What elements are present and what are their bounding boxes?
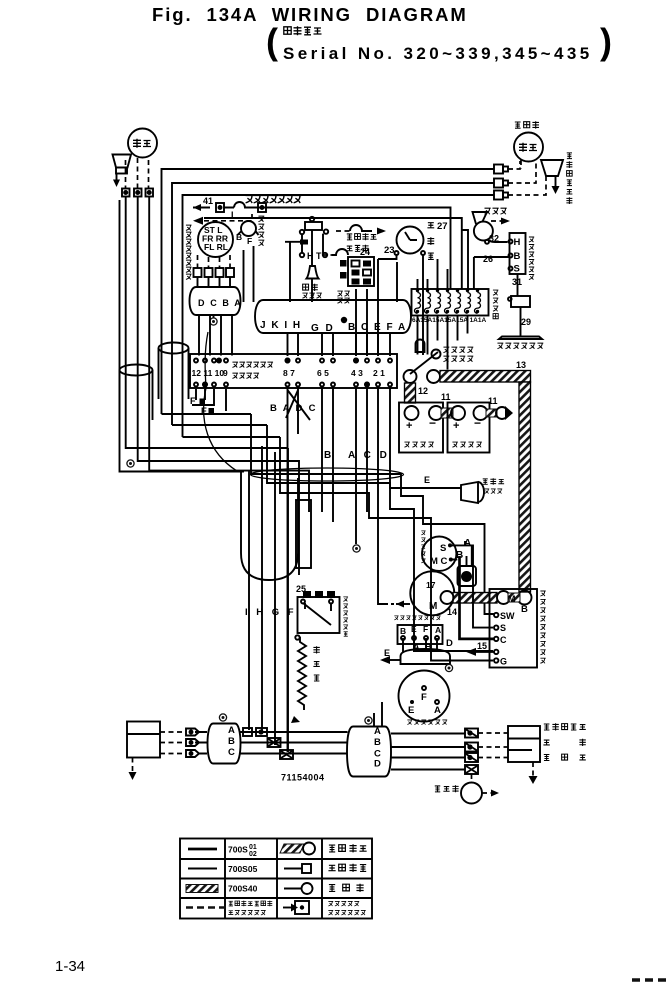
wires ellipse to junction block — [192, 334, 367, 544]
head lamp L1 (front left) — [128, 129, 157, 158]
panel lamp bulb on dashed line — [336, 230, 350, 232]
svg-text:31: 31 — [512, 277, 522, 287]
svg-text:4 3: 4 3 — [351, 368, 363, 378]
svg-text:2 1: 2 1 — [373, 368, 385, 378]
leads into connector DCBA — [198, 277, 231, 287]
label バッテリスイッチ — [443, 347, 473, 353]
svg-text:M C: M C — [430, 556, 448, 567]
svg-text:12 11 10: 12 11 10 — [192, 368, 225, 378]
battery switch terminals — [404, 370, 417, 383]
wires between ABC and ABCD blocks — [241, 732, 348, 754]
svg-text:B: B — [514, 251, 521, 262]
inline connectors on bottom bus — [243, 728, 267, 736]
svg-text:14: 14 — [447, 607, 457, 617]
svg-text:13: 13 — [516, 360, 526, 370]
svg-text:B: B — [400, 626, 406, 636]
ground at left harness — [127, 460, 134, 467]
switch dashed leads to connectors — [198, 255, 231, 269]
wire: loop3 lower bend — [183, 436, 281, 438]
labels 方向指示灯 / 電灯 / 制動灯 — [544, 723, 586, 730]
dashed return with left arrow — [204, 214, 252, 221]
svg-text:G: G — [500, 657, 507, 667]
cylinder sheath 1 (left cable) — [120, 365, 153, 421]
row4 — [186, 906, 226, 909]
flasher pilot lamp circle — [236, 221, 259, 246]
title serial-number line with big parentheses — [266, 21, 612, 63]
row1: plain wire sample — [188, 848, 217, 851]
battery link 11 — [441, 408, 453, 418]
wire: horn lead down long left — [120, 200, 245, 472]
svg-text:F: F — [423, 624, 428, 634]
wire: loop3 — [183, 195, 495, 437]
dashed leads from lamp L1 to connectors — [126, 158, 149, 188]
svg-text:D: D — [446, 638, 453, 649]
svg-text:E: E — [201, 406, 207, 416]
horn button — [497, 337, 543, 349]
svg-text:700S05: 700S05 — [228, 864, 258, 874]
horn relay (H B S) — [509, 233, 526, 275]
starter solenoid circle S M C — [422, 537, 456, 571]
wire: chain to magnet switch S terminal — [267, 425, 493, 651]
svg-text:25: 25 — [296, 584, 306, 594]
svg-text:+: + — [453, 420, 459, 432]
svg-text:J K I H: J K I H — [260, 320, 302, 331]
big harness ellipse connector J K I H G D B C E F A — [255, 300, 411, 334]
label 前照灯 above lamp L2 — [515, 121, 539, 128]
ground mid — [353, 545, 360, 552]
wire 23 from gauge left terminal — [378, 255, 423, 355]
svg-text:A: A — [435, 625, 441, 635]
svg-text:02: 02 — [249, 851, 257, 858]
connector block ABC (bottom left) — [195, 714, 241, 764]
svg-text:11: 11 — [488, 396, 498, 406]
label 尾柴灯 — [346, 245, 368, 252]
E arrow to dynamo — [390, 659, 401, 661]
crossing swoop cable — [204, 332, 237, 471]
bottom right stray marks — [632, 978, 666, 982]
dashed leads lamp L2 / rear signal to connectors — [508, 160, 546, 195]
wires ABCD to right connectors — [391, 734, 465, 770]
head lamp L2 (front right) — [514, 133, 543, 162]
svg-text:H T: H T — [307, 251, 322, 261]
svg-text:S: S — [514, 264, 520, 275]
wire: lamp lead 3 — [149, 197, 309, 513]
row2 — [188, 868, 217, 870]
svg-text:71154004: 71154004 — [281, 773, 325, 783]
labels around ammeter: 電 27 / 尾 / 計 — [427, 221, 447, 259]
vertical cable bundle sheath (U loop) — [241, 470, 298, 580]
svg-text:1-34: 1-34 — [55, 958, 85, 975]
heavy cable 13 horizontal — [440, 371, 531, 383]
signal lamp — [435, 774, 499, 804]
connector plugs below lamp L1 — [122, 189, 153, 197]
svg-text:A: A — [374, 726, 381, 737]
flasher wires down to harness ellipse — [244, 246, 254, 302]
svg-text:B: B — [374, 737, 381, 748]
svg-text:+: + — [406, 420, 412, 432]
svg-text:29: 29 — [521, 317, 531, 327]
svg-text:23: 23 — [384, 245, 395, 256]
staircase bend wires crossing to right side — [251, 414, 494, 614]
svg-text:SW: SW — [500, 611, 515, 621]
svg-text:G D: G D — [311, 323, 335, 334]
light switch SW1 (ST L / FR RR / FL RL) — [198, 222, 233, 257]
svg-text:H: H — [514, 237, 521, 248]
svg-text:S: S — [500, 623, 506, 633]
svg-text:−: − — [474, 416, 481, 430]
svg-text:01: 01 — [249, 844, 257, 851]
dashed leads to plugs — [160, 732, 185, 754]
wire to horn button — [520, 307, 522, 336]
wire: starter motor feed — [378, 387, 386, 604]
svg-text:Fig. 134A WIRING DIAGRAM: Fig. 134A WIRING DIAGRAM — [152, 4, 468, 25]
rear lamp unit box — [508, 726, 540, 784]
right side connectors — [465, 729, 478, 775]
svg-text:17: 17 — [426, 580, 436, 590]
dashed leads to rear lamp box — [478, 733, 508, 758]
svg-text:A: A — [228, 725, 235, 736]
label: light switch vertical text — [186, 225, 192, 279]
dynamo end circle E F A — [399, 664, 453, 721]
glow plug resistor block — [458, 556, 477, 586]
label: pilot lamp (katakana) — [246, 196, 302, 204]
row3 — [186, 885, 218, 893]
wire: loop1 left/top (outer harness rectangle) — [162, 169, 495, 414]
wire: loop1 lower bend to bundle — [162, 413, 252, 415]
svg-text:A: A — [434, 705, 441, 716]
wire: solenoid S to magnet switch — [450, 545, 493, 627]
svg-text:B A D C: B A D C — [270, 403, 317, 414]
svg-text:12: 12 — [418, 386, 428, 396]
central wires down from junction block — [390, 387, 461, 488]
tail lamp bulb bump 2 — [332, 249, 348, 255]
label pull switch — [303, 284, 318, 291]
wire horn to relay H — [487, 239, 508, 242]
svg-text:6A15A15A15A15A 1A1A: 6A15A15A15A15A 1A1A — [412, 317, 486, 324]
ground under DCBA — [213, 315, 215, 318]
connector block ABCD (bottom center) — [347, 717, 391, 777]
starter feed arrow — [396, 603, 410, 605]
svg-text:D C B A: D C B A — [198, 298, 242, 308]
heavy cable 12 — [405, 383, 416, 403]
glow plug resistor zigzag — [291, 637, 320, 723]
ammeter gauge M1 — [395, 227, 426, 256]
svg-text:B C E F A: B C E F A — [348, 322, 407, 333]
wire: chain to magnet switch G terminal — [280, 437, 493, 661]
plug connectors left — [186, 729, 199, 758]
battery B2 — [448, 403, 490, 453]
wire: loop2 lower bend — [172, 424, 267, 426]
svg-text:S: S — [440, 543, 446, 554]
starter motor circle 17 — [410, 571, 454, 615]
svg-text:E: E — [408, 705, 414, 716]
wide flat harness ellipse (cable sheath mid) — [251, 468, 404, 481]
arrow 15 — [476, 651, 494, 653]
svg-text:F: F — [421, 692, 427, 703]
svg-text:Serial No. 320~339,345~435: Serial No. 320~339,345~435 — [283, 44, 593, 63]
svg-text:B: B — [324, 450, 331, 461]
wires fusebox top to harness — [418, 259, 448, 289]
svg-text:L: L — [231, 210, 237, 220]
svg-text:B: B — [521, 604, 528, 615]
label: flasher vertical katakana — [258, 216, 264, 246]
svg-text:E: E — [411, 624, 417, 634]
pilot lamp feed arrow 41 — [193, 196, 213, 211]
label ホーン — [484, 208, 506, 214]
svg-text:41: 41 — [203, 196, 213, 206]
bell of pull switch — [307, 266, 319, 279]
battery B1 — [399, 403, 443, 453]
horn H1 — [473, 212, 511, 241]
heavy cable 13 vertical — [519, 382, 531, 592]
fuse box — [412, 289, 489, 324]
wire: loop2 — [172, 183, 494, 425]
wire B to C heavy — [460, 556, 494, 639]
svg-text:B: B — [236, 232, 242, 242]
label vertical right of relay 25 — [343, 597, 348, 636]
cylinder sheath 2 (left cable) — [159, 343, 189, 400]
front horn / turn signal trumpet (top-left) — [113, 155, 132, 188]
relay S down to diode box — [517, 274, 519, 296]
wires dynamo to connector ABCD — [374, 702, 382, 727]
svg-text:M: M — [429, 601, 437, 612]
pull-out switch (dimmer pull switch) — [285, 217, 328, 302]
legend table frame — [180, 839, 372, 919]
battery switch lever — [410, 340, 441, 375]
svg-text:8 7: 8 7 — [283, 368, 295, 378]
wire: solenoid A lead to glow relay — [451, 541, 472, 566]
wires below junction block — [288, 387, 299, 752]
svg-text:D: D — [374, 759, 381, 770]
svg-text:C: C — [228, 747, 235, 758]
relay 25 — [295, 584, 339, 640]
brake lamp switch trumpet — [400, 475, 504, 503]
svg-text:26: 26 — [483, 254, 493, 264]
svg-text:700S40: 700S40 — [228, 884, 258, 894]
vertical kana label left of starter — [421, 531, 425, 563]
label vertical 後方向指示灯 — [566, 153, 572, 204]
svg-text:15: 15 — [477, 641, 487, 651]
svg-text:A C D: A C D — [348, 450, 390, 461]
heavy cable 14 — [453, 593, 497, 604]
svg-text:700S: 700S — [228, 845, 248, 855]
svg-text:−: − — [429, 416, 436, 430]
inner harness loop4 — [193, 208, 451, 290]
voltage regulator — [394, 616, 442, 644]
flasher unit 24 — [337, 247, 374, 303]
small rect loop above relay 25 — [296, 500, 311, 568]
label under dynamo — [407, 720, 447, 725]
svg-text:I H G F: I H G F — [245, 607, 297, 618]
connector block DCBA — [190, 287, 243, 315]
svg-text:E: E — [384, 648, 390, 658]
battery 2 earth link — [486, 409, 497, 417]
svg-text:24: 24 — [360, 247, 370, 257]
magnet switch box — [490, 589, 538, 668]
diode box under relay — [511, 296, 530, 307]
right-end connectors of harness loops (to head lamp R) — [494, 165, 508, 200]
svg-text:9: 9 — [223, 368, 228, 378]
svg-text:6 5: 6 5 — [317, 368, 329, 378]
svg-text:F: F — [247, 236, 252, 246]
wire: lamp lead 1 down-left bundle — [126, 197, 288, 449]
rear turn signal trumpet (top right) — [541, 160, 563, 194]
svg-text:11: 11 — [441, 392, 451, 402]
wire bundle verticals instrument to junction — [322, 334, 390, 356]
svg-text:E: E — [424, 475, 430, 485]
dynamo yoke cylinder — [401, 638, 451, 664]
pilot lamp connectors — [216, 203, 266, 212]
bundle inner verticals to bottom connectors — [249, 446, 288, 752]
wire: lamp lead 2 — [138, 197, 299, 576]
bottom-left lamp unit box — [127, 722, 160, 781]
svg-text:27: 27 — [437, 221, 448, 232]
svg-text:B: B — [228, 736, 235, 747]
switch connectors — [194, 268, 235, 277]
wire 26 from relay B left — [474, 257, 509, 289]
label vertical fuse box — [493, 290, 498, 319]
inner harness loop5 — [204, 218, 468, 289]
svg-text:FL RL: FL RL — [204, 242, 228, 252]
label 計器板灯 — [347, 233, 377, 240]
svg-text:(: ( — [266, 21, 278, 62]
pilot lamp bulb bump — [224, 202, 258, 208]
junction block — [190, 354, 397, 388]
wires DCBA down to junction block — [199, 316, 232, 356]
wires from 24 down — [356, 289, 367, 355]
svg-text:): ) — [600, 21, 612, 62]
svg-text:M: M — [508, 594, 516, 604]
label vertical ホーンリレー — [529, 237, 534, 280]
label vertical マグネットスイッチ — [540, 591, 545, 663]
svg-text:C: C — [500, 635, 507, 645]
wires fusebox bottom down — [418, 316, 468, 370]
